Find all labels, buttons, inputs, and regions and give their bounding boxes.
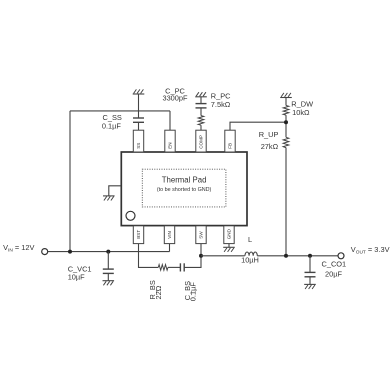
wire COMP chain: [200, 97, 202, 104]
ground (above C_PC): [195, 92, 207, 97]
svg-text:3300pF: 3300pF: [162, 94, 188, 103]
svg-text:FB: FB: [228, 143, 233, 149]
terminal VOUT: [338, 253, 344, 259]
wire output rail right: [257, 255, 338, 257]
wire: [168, 266, 180, 268]
pin GND (box): [224, 226, 234, 244]
capacitor C_SS: [133, 117, 144, 119]
wire BST stub: [139, 244, 159, 267]
wire left VIN riser: [69, 111, 71, 252]
thermal pad (dotted): [142, 169, 226, 207]
pin SS (box): [133, 130, 143, 152]
svg-text:EN: EN: [168, 142, 173, 148]
wire FB stub: [230, 122, 286, 130]
wire EN rail horizontal: [70, 110, 170, 112]
pin VIN (box): [164, 226, 174, 244]
ground (above R_DW): [280, 93, 292, 98]
wire: [285, 115, 287, 137]
wire: [285, 98, 287, 106]
node C_VC1 junction: [106, 250, 110, 254]
node SW junction: [199, 254, 203, 258]
svg-text:10kΩ: 10kΩ: [292, 108, 310, 117]
pin COMP (box): [196, 130, 206, 152]
svg-text:L: L: [248, 235, 252, 244]
capacitor C_VC1: [107, 252, 109, 270]
svg-text:VIN = 12V: VIN = 12V: [3, 243, 34, 253]
wire input rail: [48, 251, 170, 253]
node EN riser junction: [68, 250, 72, 254]
wire SW stub: [200, 244, 202, 256]
ground (C_CO1): [304, 284, 316, 289]
capacitor C_CO1: [309, 256, 311, 273]
svg-text:10µF: 10µF: [68, 273, 85, 282]
IC U1 body: [121, 152, 247, 226]
resistor R_UP: [283, 137, 289, 147]
wire SS chain lower: [138, 122, 140, 130]
capacitor C_PC: [196, 103, 207, 105]
resistor R_DW: [283, 106, 289, 116]
resistor R_BS: [158, 265, 168, 271]
svg-text:COMP: COMP: [199, 135, 204, 149]
pin SW (box): [196, 226, 206, 244]
svg-text:SW: SW: [199, 231, 204, 239]
wire EN stub down: [169, 111, 171, 130]
inductor L: [245, 252, 257, 256]
svg-text:C_CO1: C_CO1: [322, 259, 347, 268]
svg-text:BST: BST: [136, 230, 141, 239]
node C_CO1 junction: [308, 254, 312, 258]
node R_UP junction: [284, 254, 288, 258]
pin BST (box): [133, 226, 143, 244]
pin 1 indicator circle: [126, 211, 135, 220]
wire SS chain upper: [138, 94, 140, 118]
wire R_UP down to output rail: [285, 148, 287, 256]
svg-text:0.1µF: 0.1µF: [189, 282, 198, 302]
svg-text:SS: SS: [136, 143, 141, 149]
capacitor C_BS: [179, 263, 181, 271]
terminal VIN: [42, 249, 48, 255]
wire GND pin stub: [228, 244, 230, 247]
svg-text:R_PC: R_PC: [211, 91, 231, 100]
resistor R_PC: [198, 116, 204, 126]
pin EN (box): [165, 130, 175, 152]
wire: [200, 125, 202, 130]
node FB divider junction: [284, 120, 288, 124]
svg-text:GND: GND: [227, 228, 232, 239]
svg-text:7.5kΩ: 7.5kΩ: [211, 100, 231, 109]
ground (C_VC1): [103, 281, 115, 286]
wire bootstrap to SW: [184, 256, 201, 268]
svg-text:10µH: 10µH: [241, 255, 259, 264]
svg-text:22Ω: 22Ω: [154, 285, 163, 299]
wire output rail left: [201, 255, 245, 257]
wire VIN pin stub: [169, 244, 171, 252]
wire: [200, 108, 202, 116]
svg-text:VOUT = 3.3V: VOUT = 3.3V: [351, 245, 390, 255]
svg-text:R_UP: R_UP: [259, 130, 279, 139]
svg-text:20µF: 20µF: [325, 270, 342, 279]
svg-text:27kΩ: 27kΩ: [261, 142, 279, 151]
svg-text:0.1µF: 0.1µF: [102, 122, 122, 131]
ground (IC left tab): [109, 186, 122, 196]
ground (GND pin): [223, 247, 235, 252]
svg-text:Thermal Pad: Thermal Pad: [162, 176, 207, 185]
svg-text:VIN: VIN: [167, 231, 172, 239]
pin FB (box): [225, 130, 235, 152]
ground (above C_SS): [133, 89, 145, 94]
svg-text:(to be shorted to GND): (to be shorted to GND): [157, 187, 212, 193]
